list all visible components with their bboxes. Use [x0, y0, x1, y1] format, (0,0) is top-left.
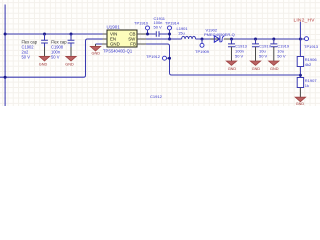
ground for C1917 — [250, 47, 260, 65]
capacitor C1917 — [252, 39, 259, 48]
wire: VIN horizontal rail — [5, 33, 102, 35]
pin SW — [137, 38, 146, 40]
ground for C1908 — [66, 47, 76, 61]
svg-text:50 V: 50 V — [51, 54, 60, 59]
node: C1908 junction — [70, 33, 73, 36]
diode V1902 — [211, 36, 231, 42]
wire between resistors — [299, 67, 301, 78]
node C1919 junction — [272, 38, 275, 41]
wire to net label — [299, 22, 301, 39]
testpoint TP1914 — [168, 26, 172, 30]
svg-text:50 V: 50 V — [259, 53, 268, 58]
svg-text:50 V: 50 V — [235, 53, 244, 58]
label L1901 — [177, 26, 189, 36]
svg-text:FB: FB — [130, 42, 136, 47]
capacitor C1902 — [41, 34, 48, 47]
wire: EN horizontal to pin — [88, 38, 103, 40]
pin GND — [102, 43, 107, 45]
label U1901 — [107, 25, 121, 30]
label C1902 — [22, 39, 38, 59]
wire diode to output — [230, 38, 300, 40]
label C1912 — [150, 94, 163, 99]
svg-text:1k: 1k — [305, 83, 309, 88]
svg-text:GND: GND — [252, 67, 261, 71]
node output junction — [299, 38, 302, 41]
pin names — [110, 32, 136, 47]
label C1911 — [154, 16, 166, 30]
svg-text:50 V: 50 V — [22, 54, 31, 59]
svg-text:C1912: C1912 — [150, 94, 163, 99]
wire FB net — [146, 44, 300, 75]
svg-text:50 V: 50 V — [277, 53, 286, 58]
regulator U1901 body — [107, 30, 137, 47]
label TPS54040D-Q1 — [103, 49, 133, 54]
junction: loop bottom — [4, 76, 7, 79]
resistor R1906 — [297, 57, 303, 67]
node C1917 junction — [254, 38, 257, 41]
wire to divider — [299, 39, 301, 57]
pin CB — [137, 33, 146, 35]
label V1902 — [204, 28, 235, 37]
pin VIN — [103, 33, 108, 35]
node: C1902 junction — [43, 33, 46, 36]
testpoint TP1913 — [300, 38, 304, 40]
svg-text:TP1912: TP1912 — [146, 54, 161, 59]
wire GND pin — [96, 43, 103, 45]
resistor R1907 — [297, 78, 303, 88]
wire SW node to coil — [170, 38, 182, 40]
svg-text:50 V: 50 V — [154, 24, 163, 29]
inductor L1901 — [182, 36, 196, 39]
net label LIN2_HV — [294, 17, 316, 23]
svg-text:GND: GND — [39, 62, 48, 66]
ground for U1901 — [90, 44, 100, 51]
ground for C1913 — [226, 47, 236, 65]
node C1913 junction — [230, 38, 233, 41]
svg-text:GND: GND — [228, 67, 237, 71]
capacitor C1908 — [68, 34, 75, 47]
svg-text:GND: GND — [92, 51, 101, 55]
junction: input/VIN rail — [4, 33, 7, 36]
pin FB — [137, 43, 146, 45]
ground for C1902 — [39, 47, 49, 61]
svg-text:LIN2_HV: LIN2_HV — [294, 17, 316, 23]
wire: input vertical from top edge — [4, 5, 6, 107]
svg-text:TP1910: TP1910 — [134, 20, 149, 25]
svg-text:15u: 15u — [178, 30, 185, 35]
wire coil to diode — [196, 38, 211, 40]
node FB junction — [299, 74, 302, 77]
svg-text:GND: GND — [65, 62, 74, 66]
testpoint TP1909 — [201, 38, 204, 41]
testpoint TP1910 — [146, 26, 150, 30]
svg-text:TPS54040D-Q1: TPS54040D-Q1 — [103, 49, 133, 54]
background grid — [0, 0, 320, 106]
pin EN — [103, 38, 108, 40]
svg-text:TP1914: TP1914 — [165, 20, 180, 25]
svg-text:PMEG4050ER-Q: PMEG4050ER-Q — [204, 32, 235, 37]
capacitor C1919 — [270, 39, 277, 48]
svg-text:GND: GND — [270, 67, 279, 71]
svg-text:TP1913: TP1913 — [304, 44, 319, 49]
junction SW — [168, 38, 171, 41]
svg-text:GND: GND — [296, 102, 305, 106]
ground for C1919 — [269, 47, 279, 65]
svg-text:U1901: U1901 — [107, 25, 121, 30]
wire SW pin — [146, 38, 170, 40]
capacitor C1911 — [156, 31, 169, 37]
testpoint TP1912 — [146, 54, 161, 59]
capacitor C1913 — [228, 39, 235, 48]
svg-text:4k2: 4k2 — [305, 62, 312, 67]
ground for divider — [295, 88, 305, 102]
wire: EN loop vertical — [84, 39, 88, 77]
label C1908 — [51, 39, 67, 59]
svg-text:GND: GND — [110, 42, 120, 47]
wire: EN loop bottom — [0, 76, 84, 78]
svg-text:TP1909: TP1909 — [195, 49, 210, 54]
wire CB net — [146, 33, 156, 35]
